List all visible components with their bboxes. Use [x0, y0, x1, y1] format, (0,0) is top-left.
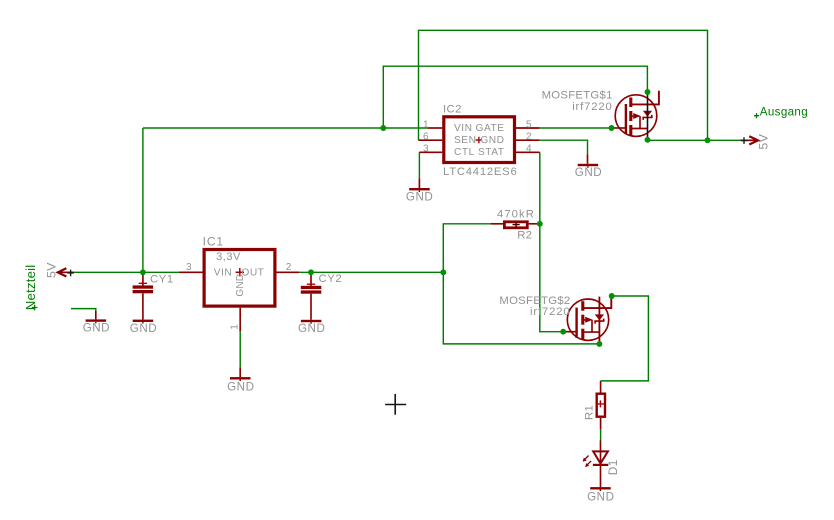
- Q1 channel segment top: [629, 98, 632, 108]
- Q2 bulk arrow: [583, 319, 585, 321]
- supply arrow input 5V: [44, 262, 74, 278]
- transistor Q1 circle: [615, 95, 657, 137]
- GND symbol below D1: [587, 487, 614, 504]
- svg-text:GND: GND: [235, 274, 246, 297]
- wire IC2 pin3 down to GND: [418, 152, 420, 178]
- Ausgang origin cross: [754, 113, 759, 118]
- Q2 drain link: [583, 331, 600, 333]
- svg-text:IC2: IC2: [443, 104, 462, 116]
- svg-text:5V: 5V: [44, 262, 58, 278]
- Q2 drain vertical: [598, 297, 600, 344]
- node riser bus2: [380, 125, 386, 131]
- Q2 channel segment bottom: [581, 329, 584, 340]
- node 3.3V rail corner: [440, 269, 446, 275]
- D1 emission arrow 1: [583, 456, 589, 462]
- svg-text:LTC4412ES6: LTC4412ES6: [443, 166, 518, 178]
- R1 body: [597, 394, 605, 417]
- node Q1 gate: [609, 125, 615, 131]
- svg-text:IC1: IC1: [203, 235, 224, 249]
- label Ausgang: [754, 106, 808, 119]
- IC1 box: [204, 250, 275, 307]
- IC2 box: [444, 117, 515, 163]
- wire R1 to LED D1: [600, 429, 602, 441]
- node Q2 drain bottom: [596, 341, 602, 347]
- svg-text:470kR: 470kR: [497, 208, 535, 220]
- svg-text:GND: GND: [298, 322, 325, 335]
- ORIGIN CROSS of sheet: [385, 394, 406, 415]
- R1 top pin: [600, 381, 602, 393]
- svg-text:Netzteil: Netzteil: [23, 265, 38, 311]
- svg-text:GND: GND: [480, 135, 504, 146]
- svg-text:1: 1: [423, 119, 429, 130]
- D1 emission arrow 2: [585, 461, 591, 467]
- resistor R2 470kR: [491, 208, 540, 241]
- Q1 source lead top L: [631, 91, 659, 105]
- wire IC2 pin5 GATE to MOSFET1 gate: [540, 127, 612, 129]
- node output tee: [705, 137, 711, 143]
- CY1 bottom lead: [142, 293, 144, 319]
- Q1 drain-source vertical wire overlap: [647, 92, 649, 140]
- GND symbol below IC2 pin3: [406, 178, 433, 203]
- svg-text:GND: GND: [406, 191, 433, 204]
- node input/CY1: [140, 269, 146, 275]
- svg-text:STAT: STAT: [478, 147, 505, 158]
- svg-text:SEN: SEN: [454, 135, 476, 146]
- D1 anode pin: [600, 441, 602, 452]
- CY2 plate bottom: [301, 290, 322, 293]
- svg-text:R1: R1: [583, 405, 595, 420]
- R2 origin cross: [513, 221, 520, 228]
- svg-text:5V: 5V: [757, 133, 771, 149]
- Q1 bulk arrow: [631, 115, 633, 117]
- GND symbol below IC1 pin1: [227, 367, 254, 393]
- Q2 body diode cathode bar: [595, 319, 604, 324]
- CY1 plate bottom: [133, 290, 154, 293]
- svg-text:Ausgang: Ausgang: [760, 106, 808, 119]
- wire input 5V to CY1 to IC1 pin3: [74, 271, 179, 273]
- svg-text:6: 6: [423, 132, 429, 143]
- svg-text:CTL: CTL: [454, 147, 475, 158]
- capacitor CY1: [133, 272, 174, 319]
- wire MOSFET1 drain to output: [648, 139, 741, 141]
- IC2 pin 1: [427, 127, 442, 129]
- Q1 gate bar: [625, 104, 627, 134]
- IC1 pin 2: [277, 271, 300, 273]
- wire CY1 riser up: [142, 128, 144, 272]
- IC1 pin 3: [179, 271, 203, 273]
- Q1 drain link: [631, 128, 648, 130]
- Q2 source lead top L: [583, 296, 612, 308]
- wire IC2 pin4 STAT down to R2 right and MOSFET2 gate: [540, 152, 563, 331]
- wire IC1 pin1 down: [239, 331, 241, 367]
- svg-text:2: 2: [526, 132, 532, 143]
- output pin cross: [741, 137, 748, 144]
- CY2 origin cross: [307, 280, 315, 288]
- wire IC2 pin2 to GND: [540, 140, 588, 154]
- CY2 top lead: [310, 272, 312, 286]
- node Q1 source top: [645, 89, 651, 95]
- resistor R1: [583, 381, 605, 429]
- wire upper bus 1 from IC2 pin6 to output: [419, 30, 708, 140]
- wire MOSFET2 source to R1: [601, 296, 649, 381]
- output pin line: [740, 139, 756, 141]
- Q1 gate lead: [614, 127, 626, 129]
- GND symbol floating left: [83, 311, 110, 335]
- Q1 body diode cathode bar: [643, 115, 652, 120]
- R2 right pin: [529, 223, 540, 225]
- MOSFET Q G$1 irf7220: [542, 90, 659, 140]
- svg-text:irf7220: irf7220: [572, 101, 613, 113]
- GND symbol below IC2 pin2: [575, 154, 602, 179]
- Q2 channel segment middle: [581, 315, 584, 325]
- IC2 origin cross: [476, 137, 483, 144]
- CY2 plate top: [301, 286, 322, 289]
- wire stub to left floating GND: [71, 309, 96, 311]
- svg-text:CY1: CY1: [150, 273, 174, 285]
- CY1 origin cross: [139, 279, 147, 287]
- Q1 channel segment middle: [629, 111, 632, 121]
- wire node down to MOSFET2 drain bottom: [443, 272, 599, 344]
- Q1 channel segment bottom: [629, 125, 632, 136]
- Q2 bulk lead down: [591, 320, 593, 332]
- IC1 pin 1: [239, 308, 241, 331]
- node Q1 drain bottom: [645, 137, 651, 143]
- wire horizontal to IC2 pin1: [143, 127, 427, 129]
- Q2 channel segment top: [581, 301, 584, 311]
- MOSFET Q G$2 irf7220: [499, 295, 611, 344]
- R2 body: [504, 222, 527, 228]
- wire riser to upper bus 2: [383, 66, 647, 128]
- CY1 plate top: [133, 285, 154, 288]
- GND symbol below CY2: [298, 320, 325, 335]
- node Q2 source top: [609, 293, 615, 299]
- Q1 bulk lead down: [639, 116, 641, 128]
- svg-text:3: 3: [423, 144, 429, 155]
- R2 left pin: [491, 223, 503, 225]
- D1 cathode bar: [593, 464, 608, 466]
- Q1 body diode anode triangle: [644, 111, 651, 116]
- input pin line: [59, 271, 74, 273]
- IC2 pin 4: [516, 151, 540, 153]
- IC2 pin 2: [516, 139, 540, 141]
- svg-text:5: 5: [526, 119, 532, 130]
- svg-text:R2: R2: [517, 229, 532, 241]
- R1 bottom pin: [600, 418, 602, 429]
- svg-text:GND: GND: [227, 381, 254, 394]
- D1 triangle: [593, 451, 608, 463]
- IC2 pin 6: [419, 139, 443, 141]
- svg-text:CY2: CY2: [319, 273, 343, 285]
- input pin cross: [67, 270, 74, 277]
- svg-text:GATE: GATE: [476, 123, 505, 134]
- node IC1 out/CY2: [308, 269, 314, 275]
- svg-text:D1: D1: [606, 459, 620, 475]
- wire IC1 pin2 output 3.3V rail: [299, 271, 443, 273]
- node Q2 gate: [560, 329, 566, 335]
- svg-text:GND: GND: [130, 322, 157, 335]
- R1 origin cross: [597, 400, 604, 407]
- label Netzteil: [23, 265, 38, 311]
- IC1 regulator 3,3V: [179, 235, 299, 332]
- Q2 body diode anode triangle: [596, 315, 603, 320]
- wire R2 left down to node: [443, 224, 490, 272]
- IC2 pin 5: [516, 127, 540, 129]
- output arrowhead: [749, 136, 758, 144]
- Q2 gate bar: [575, 308, 577, 338]
- svg-text:GND: GND: [575, 166, 602, 179]
- D1 lead through: [600, 451, 602, 487]
- node R2 right: [537, 221, 543, 227]
- IC2 pin 3: [419, 151, 442, 153]
- Q2 gate lead: [565, 331, 576, 333]
- svg-text:GND: GND: [83, 322, 110, 335]
- input arrowhead: [58, 268, 67, 276]
- supply arrow output 5V: [740, 133, 770, 149]
- capacitor CY2: [301, 272, 342, 320]
- CY1 top lead: [142, 272, 144, 285]
- transistor Q2 circle: [567, 299, 608, 340]
- IC2 LTC4412ES6: [419, 104, 540, 178]
- svg-text:VIN: VIN: [214, 268, 232, 279]
- svg-text:irf7220: irf7220: [530, 306, 571, 318]
- svg-text:VIN: VIN: [454, 123, 472, 134]
- svg-text:4: 4: [526, 144, 532, 155]
- svg-text:3,3V: 3,3V: [216, 251, 241, 263]
- CY2 bottom lead: [310, 294, 312, 320]
- Netzteil origin cross: [32, 305, 38, 311]
- svg-text:1: 1: [230, 324, 241, 330]
- svg-text:2: 2: [286, 262, 292, 273]
- GND symbol below CY1: [130, 320, 157, 335]
- IC1 origin cross: [236, 268, 244, 276]
- LED D1: [583, 441, 620, 488]
- svg-text:3: 3: [186, 262, 192, 273]
- svg-text:GND: GND: [587, 491, 614, 504]
